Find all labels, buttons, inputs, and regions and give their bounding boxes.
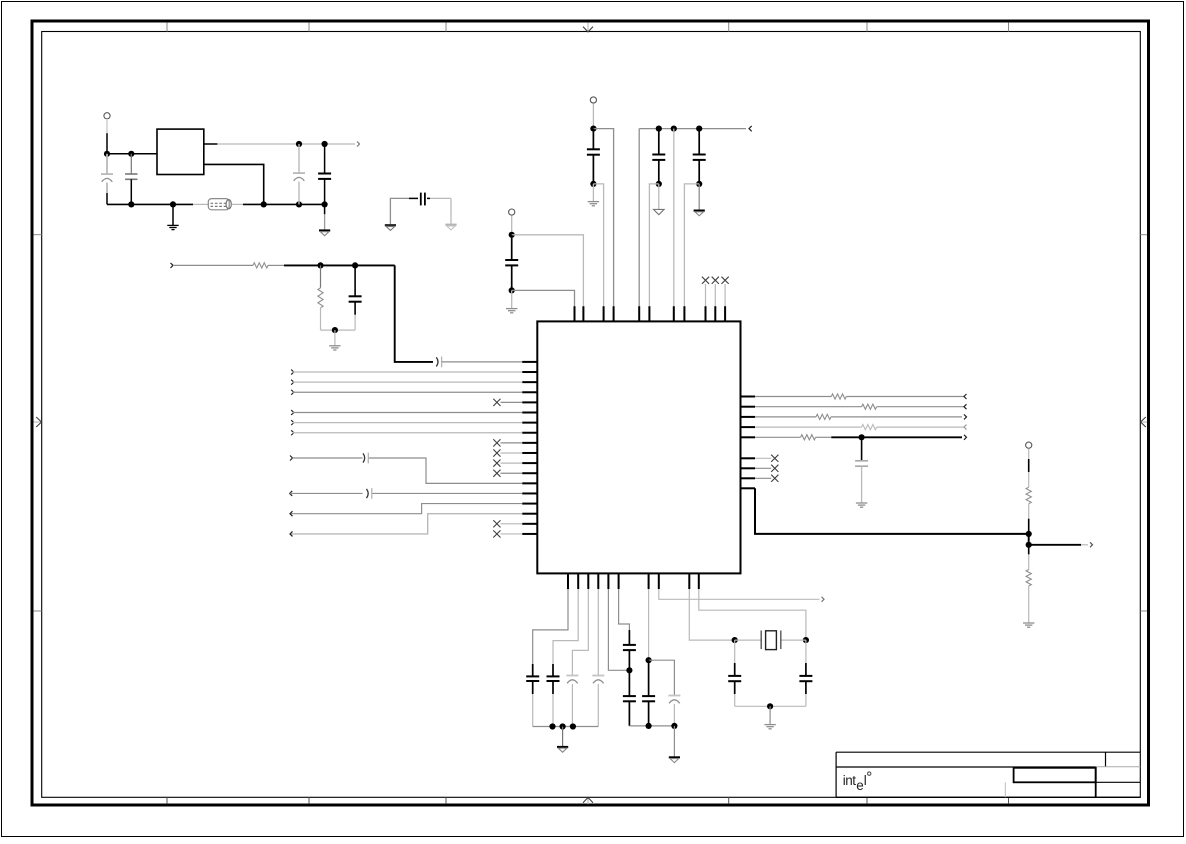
svg-text:e: e [856,778,864,793]
svg-text:int: int [843,773,857,788]
svg-text:l: l [864,773,867,788]
